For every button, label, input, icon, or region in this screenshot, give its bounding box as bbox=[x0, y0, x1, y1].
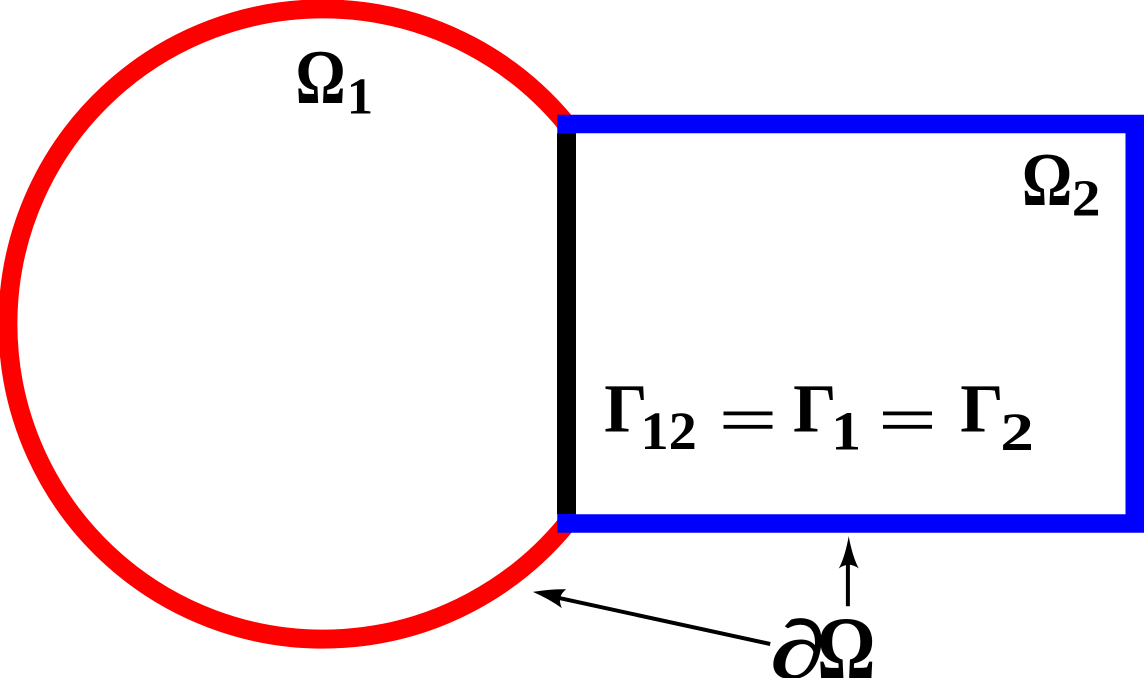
interface Gamma12: black vertical line bbox=[557, 134, 576, 515]
vertical arrow to bottom edge bbox=[839, 536, 859, 607]
svg-text:2: 2 bbox=[1000, 403, 1034, 462]
svg-text:Γ: Γ bbox=[960, 370, 1003, 446]
svg-text:Ω: Ω bbox=[1022, 139, 1072, 223]
label dOmega bbox=[771, 605, 826, 678]
svg-text:Ω: Ω bbox=[817, 598, 875, 678]
domain Omega1 boundary: red circular arc bbox=[8, 9, 567, 639]
svg-text:Γ: Γ bbox=[793, 370, 836, 446]
formula Gamma_12 = Gamma_1 = Gamma_2 bbox=[604, 370, 647, 446]
domain Omega2 boundary: blue rectangle bbox=[567, 124, 1135, 524]
slanted arrow to circle bbox=[533, 589, 770, 644]
svg-text:Ω: Ω bbox=[296, 35, 346, 121]
svg-text:12: 12 bbox=[641, 401, 697, 461]
svg-text:1: 1 bbox=[347, 68, 373, 126]
label Omega_1 bbox=[296, 35, 346, 121]
label Omega_2 bbox=[1022, 139, 1072, 223]
svg-text:2: 2 bbox=[1072, 169, 1101, 227]
svg-text:1: 1 bbox=[831, 401, 861, 462]
